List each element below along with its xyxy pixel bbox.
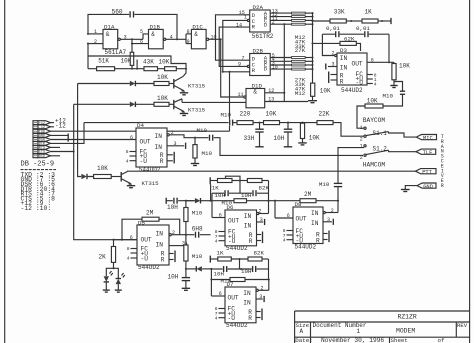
svg-text:2: 2 [261, 286, 264, 292]
ground LED VD5 [115, 290, 122, 292]
title block frame [295, 311, 470, 343]
wire +12 audio rail [84, 122, 229, 124]
resistor 62K [340, 35, 356, 45]
svg-text:13: 13 [268, 97, 274, 103]
wire cap row to D6 pin2 riser [257, 212, 259, 214]
svg-text:2: 2 [171, 130, 174, 136]
svg-text:M12: M12 [295, 90, 306, 97]
wire D1A input pin2 [88, 43, 103, 45]
capacitor 10H shunt [274, 123, 293, 147]
wire 82K right filter2 [262, 258, 269, 260]
diode VD2 [130, 102, 136, 107]
svg-text:10K: 10K [320, 88, 331, 95]
svg-text:DB -25-9: DB -25-9 [21, 161, 55, 169]
wire D2B outputs [270, 57, 291, 59]
connector TLF [416, 149, 436, 156]
resistor M12 [292, 12, 306, 14]
capacitor M10 coupling [383, 91, 406, 99]
node 43K left [136, 68, 138, 70]
IC D1D 561LA7 [244, 83, 265, 108]
svg-text:S1.2: S1.2 [373, 146, 388, 153]
wire to D1B pin6 [132, 43, 149, 45]
wire D8 out riser [274, 201, 276, 218]
LED VD4 [104, 268, 114, 290]
gate D1B [149, 23, 166, 48]
svg-text:OUT: OUT [228, 217, 239, 224]
label TRANSCEIVER vertical [441, 134, 444, 189]
svg-text:4: 4 [127, 256, 130, 262]
diode VD7 [186, 266, 211, 271]
svg-text:R: R [340, 78, 344, 85]
wire D7 feedback riser [268, 280, 270, 291]
ground Q3 emitter [127, 184, 135, 188]
wire 10H input row D5 [166, 200, 173, 202]
svg-text:2M: 2M [304, 191, 312, 198]
wire ladder outputs to bus [305, 12, 312, 14]
wire y200 ext [316, 200, 338, 202]
wire D2A pin15 feed [216, 15, 250, 60]
svg-text:R: R [441, 183, 444, 189]
svg-text:KT315: KT315 [188, 107, 206, 114]
svg-text:561LA7: 561LA7 [105, 49, 127, 56]
svg-text:IN: IN [156, 242, 164, 249]
svg-text:1K: 1K [365, 8, 373, 15]
wire 51K row [87, 44, 89, 69]
svg-text:-12: -12 [39, 126, 45, 130]
svg-text:HAMCOM: HAMCOM [363, 162, 386, 169]
capacitor 560 [112, 9, 134, 18]
node M10 top [185, 200, 187, 202]
svg-text:10: 10 [272, 65, 278, 71]
transistor Q1 KT315 [174, 69, 206, 92]
svg-text:4: 4 [215, 315, 218, 321]
wire pin3 to vertical resistor [131, 39, 133, 52]
wire D1D pin13 to ground bar [265, 101, 308, 103]
wire D3 FC stubs right [367, 72, 377, 87]
gate D1A [103, 23, 127, 55]
svg-text:-U: -U [356, 80, 364, 87]
svg-text:10H: 10H [167, 204, 178, 211]
node diode VD7 out [210, 268, 212, 270]
svg-text:IN: IN [311, 210, 319, 217]
wire D1D pin12 [265, 92, 285, 94]
svg-text:-U: -U [140, 158, 148, 165]
svg-text:M10: M10 [192, 253, 203, 260]
resistor 10K Q1 base [154, 74, 169, 86]
terminal bar D4 pin3 [185, 143, 187, 149]
wire D4 pin3 [167, 145, 184, 147]
svg-text:6: 6 [219, 213, 222, 219]
node bus joins upper [311, 12, 313, 14]
svg-text:544UD2: 544UD2 [138, 264, 160, 271]
wire Q2 collector to D1D pin13 rail [182, 101, 246, 103]
IC D5 544UD2 [137, 219, 169, 271]
ground bus resistor [308, 96, 317, 102]
node D1A pin2 [87, 43, 89, 45]
svg-text:IN: IN [311, 220, 319, 227]
node branch [210, 278, 212, 280]
node 33K-1K [350, 20, 352, 22]
svg-text:IN: IN [340, 65, 348, 72]
svg-text:43K: 43K [143, 58, 154, 65]
svg-text:10K: 10K [157, 74, 168, 81]
svg-text:IN: IN [243, 290, 251, 297]
svg-text:6: 6 [140, 39, 143, 45]
wire filter2 riser x268 lower [268, 259, 270, 280]
transistor Q2 KT315 [174, 99, 206, 114]
border frame right [469, 0, 471, 343]
ground GND connector [401, 186, 417, 192]
wire 2K to LEDs [113, 262, 115, 268]
svg-text:544UD2: 544UD2 [226, 245, 248, 252]
svg-text:14: 14 [236, 22, 242, 28]
svg-text:OUT: OUT [140, 138, 151, 145]
terminal bar D7 pin3 [263, 296, 265, 302]
wire D8 R stubs [323, 231, 329, 243]
svg-text:10K: 10K [157, 95, 168, 102]
wire D1C out down to D1D pin11 [221, 39, 244, 97]
svg-text:OUT: OUT [141, 237, 152, 244]
wire D1C output pin10 [209, 38, 221, 40]
svg-text:6: 6 [371, 58, 374, 64]
wire TXD riser [229, 72, 231, 131]
wire 0,01 cap row [322, 33, 335, 35]
svg-text:IN: IN [155, 133, 163, 140]
capacitor M10 rail [221, 111, 234, 126]
wire 1K loop [226, 176, 241, 180]
resistor M10 vertical upper [184, 201, 203, 222]
ground Q2 emitter [180, 112, 188, 116]
resistor M10 vertical lower [184, 245, 203, 261]
wire 43K stub vertical [136, 60, 138, 69]
wire D8 feedback riser to S1.2 [337, 187, 339, 213]
wire D3 R stubs left [329, 72, 337, 84]
wire D7 pin3 [256, 298, 263, 300]
wire D1A input pin1 [88, 33, 103, 35]
svg-text:0,01: 0,01 [326, 25, 340, 32]
svg-text:D1C: D1C [192, 23, 203, 30]
pin row DSR [33, 138, 38, 142]
wire D5 R stubs [169, 251, 175, 263]
svg-text:82K: 82K [254, 250, 265, 257]
wire M10 to pin2 [185, 222, 187, 235]
svg-text:2K: 2K [99, 253, 107, 260]
svg-text:10K: 10K [121, 58, 132, 65]
wire D6 pin2 [259, 213, 269, 215]
wire M10 to 2M [247, 200, 301, 202]
svg-text:RZ1ZR: RZ1ZR [398, 314, 417, 321]
IC D2B 561TR2 [250, 47, 271, 75]
resistor 33K [292, 19, 306, 21]
wire 10K to 22K [280, 122, 318, 124]
node KT315 Q1 collector [185, 68, 187, 70]
resistor 10K oscillator [159, 58, 177, 70]
svg-text:IN: IN [340, 55, 348, 62]
capacitor 10H shunt bottom [168, 274, 191, 291]
svg-text:561TR2: 561TR2 [252, 33, 274, 40]
wire D7 pin6 out [211, 295, 225, 297]
node D2B R join [222, 71, 224, 73]
svg-text:1K: 1K [212, 184, 219, 191]
pin row TXD [33, 129, 38, 133]
resistor 1K filter2 [217, 250, 232, 261]
wire VD7 to D7 row [210, 269, 212, 296]
node 1K right [381, 20, 383, 22]
wire split to D1C inputs [185, 34, 187, 44]
capacitor 0,01 first [326, 25, 340, 37]
svg-text:3: 3 [260, 217, 263, 223]
wire D8 pin6 out [275, 217, 293, 219]
clock bubble D2A [247, 19, 249, 21]
svg-text:6H8: 6H8 [192, 225, 203, 232]
wire Q3 base row [80, 176, 82, 178]
wire GND row to bar [51, 134, 69, 136]
resistor 82K filter1 [247, 179, 269, 192]
svg-text:4: 4 [283, 237, 286, 243]
svg-text:R: R [249, 238, 253, 245]
wire 220 to 10K [253, 122, 264, 124]
node 33H tap [258, 122, 260, 124]
terminal bar filter1 [209, 177, 211, 184]
pin row +12 [33, 121, 38, 125]
resistor M12 lower [292, 68, 306, 70]
wire D3 input riser [322, 34, 334, 55]
switch S1.2 [360, 143, 389, 160]
node LED split [112, 267, 114, 269]
wire CTS stub [51, 146, 61, 148]
svg-text:R: R [160, 158, 164, 165]
svg-text:5: 5 [140, 29, 143, 35]
svg-text:-12 :10:: -12 :10: [21, 205, 52, 212]
svg-text:1: 1 [244, 15, 247, 21]
svg-text:6: 6 [287, 213, 290, 219]
svg-text:2: 2 [259, 209, 262, 215]
svg-text:10K: 10K [159, 58, 170, 65]
svg-text:10H: 10H [168, 274, 179, 281]
wire D7 FC stubs [215, 306, 225, 321]
svg-text:33K: 33K [334, 8, 345, 15]
svg-text:-U: -U [228, 315, 236, 322]
svg-text:PTT: PTT [422, 169, 432, 175]
wire bar down to node [210, 184, 212, 200]
svg-text:&: & [253, 89, 257, 96]
wire D7 pin2 [256, 289, 258, 291]
connector DB25-9 pin rows [33, 121, 51, 159]
svg-text:10K: 10K [367, 98, 378, 105]
svg-text:R: R [161, 256, 165, 263]
wire cap to BAYCOM resistor [383, 94, 403, 106]
wire 10K to Q3 [111, 176, 121, 178]
wire lower rail of oscillator [88, 56, 186, 69]
wire D6 R stubs [257, 232, 263, 244]
terminal bar D3 pin3 [325, 64, 327, 70]
svg-text:&: & [151, 31, 155, 38]
connector PTT [416, 169, 437, 176]
clock bubble D2B [247, 65, 249, 67]
svg-text:R: R [316, 237, 320, 244]
IC D3 544UD2 [337, 47, 367, 94]
pin row GND [33, 134, 38, 138]
svg-text:10H: 10H [215, 192, 226, 199]
svg-text:220: 220 [240, 111, 251, 118]
svg-text:D4: D4 [137, 122, 144, 129]
wire M10 vertical lower chain [185, 235, 187, 245]
wire D5 pin2 [169, 234, 171, 236]
wire summing bus [312, 13, 314, 83]
wire cap to modem line [214, 138, 363, 156]
node bus ref tap [311, 20, 313, 22]
wire feed vertical B [78, 84, 81, 177]
resistor 1K top [362, 8, 378, 23]
svg-text:3: 3 [327, 217, 330, 223]
wire D1B output pin4 [166, 38, 186, 40]
wire D7 R stubs [256, 309, 262, 321]
resistor 47K lower [292, 64, 306, 66]
svg-text:S1.1: S1.1 [373, 130, 388, 137]
node filter2 caps [240, 268, 242, 270]
node D5 pin2 [185, 234, 187, 236]
resistor 27K [292, 23, 306, 25]
terminal bar filter2 [209, 256, 211, 263]
switch S1.1 [360, 125, 389, 142]
svg-text:10K: 10K [309, 135, 320, 142]
svg-text:2: 2 [360, 155, 363, 161]
wire D8 pin2 [323, 211, 325, 213]
node D8 pin2 riser [337, 200, 339, 202]
table divider [21, 169, 57, 171]
wire D1A output pin3 [120, 38, 143, 40]
svg-text:4: 4 [374, 82, 377, 88]
pin table [21, 171, 56, 212]
svg-text:6: 6 [219, 291, 222, 297]
svg-text:IN: IN [156, 230, 164, 237]
wire lower ladder to bus [305, 57, 312, 59]
resistor 2K [99, 240, 116, 263]
svg-text:10K: 10K [266, 111, 277, 118]
svg-text:D8: D8 [295, 201, 302, 208]
wire D5 pin6 out [114, 239, 138, 241]
svg-text:2: 2 [331, 208, 334, 214]
wire M10 branch [211, 279, 230, 281]
resistor M10 D8 input [222, 199, 247, 207]
svg-text:62K: 62K [344, 35, 355, 42]
diode VD1 [130, 81, 136, 86]
wire filter2 1K row [210, 258, 218, 260]
svg-text:1: 1 [360, 125, 363, 131]
resistor 10K bus to ground [311, 83, 331, 96]
resistor 1K filter1 [212, 179, 232, 192]
svg-text:544UD2: 544UD2 [226, 322, 248, 329]
node pin12 [283, 92, 285, 94]
wire Q2 base lead [169, 103, 174, 105]
svg-text:R: R [248, 315, 252, 322]
svg-text:3: 3 [124, 35, 127, 41]
resistor feedback vertical under D1A [130, 52, 134, 65]
svg-text:10H: 10H [274, 135, 285, 142]
svg-text:&: & [106, 31, 110, 38]
node D7 feedback join [268, 278, 270, 280]
capacitor 6H8 [186, 225, 211, 237]
svg-text:-U: -U [141, 256, 149, 263]
wire to D1B pin5 [143, 34, 149, 39]
node 10H shunt [185, 268, 187, 270]
wire Q1 base lead [169, 83, 174, 85]
svg-text:8: 8 [187, 29, 190, 35]
node D1A pin1 [87, 33, 89, 35]
svg-text:OUT: OUT [228, 294, 239, 301]
svg-text:544UD2: 544UD2 [295, 244, 317, 251]
svg-text:2: 2 [332, 51, 335, 57]
svg-text:M10: M10 [192, 209, 203, 216]
wire filter2 mid link [239, 259, 241, 269]
svg-text:A: A [300, 328, 304, 335]
wire D3 pin3 [328, 66, 337, 68]
svg-text:M10: M10 [383, 93, 394, 100]
svg-text:10K: 10K [399, 62, 410, 69]
terminal bar rows 4-5 [67, 134, 69, 142]
wire D6 out riser [211, 193, 213, 217]
svg-text:D2A: D2A [253, 4, 264, 11]
svg-text:November 30, 1996: November 30, 1996 [321, 337, 384, 343]
svg-text:D7: D7 [227, 281, 234, 288]
wire filter1 1K row [210, 180, 217, 182]
node D1D feed tap [283, 23, 285, 25]
connector MIC [416, 135, 436, 142]
wire D6 pin6 out [212, 217, 225, 219]
svg-text:M10: M10 [222, 199, 233, 206]
svg-text:7: 7 [242, 55, 245, 61]
wire S1.2 common to TLF [389, 150, 417, 152]
svg-text:1: 1 [94, 29, 97, 35]
resistor M10 shunt D4 [193, 138, 213, 158]
wire D2A outputs [270, 12, 291, 14]
node D5 out feedback [121, 239, 123, 241]
svg-text:D3: D3 [340, 47, 347, 54]
svg-text:M10: M10 [197, 127, 208, 134]
svg-text:11: 11 [238, 92, 244, 98]
wire 22K to S1.1 pin2 [333, 123, 364, 137]
svg-text:-12: -12 [55, 122, 66, 129]
pin row -12 [33, 125, 38, 129]
wire 62K row [313, 42, 341, 44]
svg-text:GND: GND [423, 184, 433, 190]
node 51K right [131, 68, 133, 70]
node 2K tap [112, 239, 114, 241]
svg-text:33H: 33H [244, 135, 255, 142]
node riser1 [267, 200, 269, 202]
node pin6 tap [131, 43, 133, 45]
svg-text:1: 1 [357, 328, 361, 335]
resistor 10K Q3 base [94, 165, 112, 179]
wire 33K 1K top row [313, 20, 331, 22]
capacitor 10H series [167, 198, 178, 211]
wire D3 output pin6 [367, 61, 394, 63]
IC D7 544UD2 [225, 281, 256, 329]
svg-text:D1D: D1D [252, 83, 263, 90]
svg-text:IN: IN [244, 213, 252, 220]
IC D6 544UD2 [225, 204, 257, 252]
node D1C out [220, 38, 222, 40]
node RTS row join [73, 150, 75, 152]
wire filter1 cap row [212, 192, 224, 194]
resistor 47K [292, 16, 306, 18]
svg-text:2: 2 [172, 230, 175, 236]
svg-text:1: 1 [360, 143, 363, 149]
svg-text:KT315: KT315 [188, 83, 206, 90]
capacitor 33H shunt [244, 123, 264, 147]
wire DSR row to D4 out [51, 139, 137, 141]
wire DTR row riser [51, 123, 85, 144]
